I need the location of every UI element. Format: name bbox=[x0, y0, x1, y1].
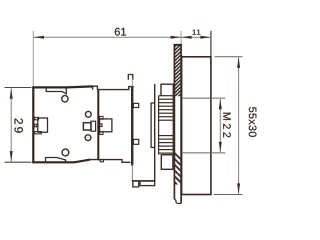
55x30 arrow up bbox=[237, 57, 240, 68]
bottom screw circle bbox=[62, 149, 69, 156]
left terminal box bbox=[38, 118, 48, 132]
neck bottom notch bbox=[100, 160, 103, 162]
dimension 29 extension top bbox=[5, 87, 32, 89]
contact block bottom edge bbox=[32, 160, 90, 163]
M22 arrow up bbox=[219, 99, 222, 110]
top key bump bbox=[93, 86, 98, 89]
bottom mounting tab bbox=[46, 158, 66, 163]
panel hatch lower section bbox=[174, 152, 183, 196]
plunger tab bbox=[128, 75, 133, 80]
flange lower tab bbox=[133, 139, 138, 144]
inner wall bbox=[97, 89, 99, 160]
panel left edge bbox=[173, 44, 175, 199]
bottom small square tab bbox=[133, 181, 139, 187]
55x30 arrow down bbox=[237, 183, 240, 194]
bushing top cap bbox=[161, 84, 173, 96]
contact carrier small rect bbox=[91, 121, 96, 131]
M22 extension bottom bbox=[182, 152, 226, 154]
label 61 bbox=[115, 28, 126, 36]
arrowhead 11 right bbox=[200, 36, 211, 39]
M22 arrow down bbox=[219, 142, 222, 153]
thread body left edge bbox=[158, 96, 160, 155]
dimension line 29 bbox=[10, 88, 12, 161]
plunger tab stem (light) bbox=[131, 80, 133, 87]
shared extension line at panel front bbox=[180, 31, 182, 44]
label 55x30 (rotated) bbox=[249, 107, 257, 137]
bushing bottom cap bbox=[161, 155, 173, 170]
panel bottom break bbox=[174, 199, 181, 203]
contact carrier square bbox=[83, 123, 91, 130]
panel top edge bbox=[174, 44, 182, 46]
left terminal nub bbox=[35, 124, 37, 127]
top screw circle bbox=[62, 96, 68, 102]
right terminal nub bbox=[100, 124, 102, 127]
55x30 dimension line bbox=[238, 58, 240, 194]
arrowhead 11 left bbox=[181, 36, 192, 39]
bottom wide tab bbox=[140, 181, 155, 186]
M22 extension top bbox=[182, 97, 226, 99]
label M22 (rotated) bbox=[223, 113, 231, 138]
contact block left edge bbox=[32, 86, 34, 163]
right terminal bottom tab bbox=[100, 132, 103, 135]
dimension 61 extension line left bbox=[32, 31, 34, 87]
arrowhead 61 left bbox=[34, 36, 45, 39]
flange plate bbox=[131, 87, 133, 166]
neck top edge bbox=[97, 87, 133, 90]
lower bracket bottom bbox=[132, 180, 156, 182]
collar right edge bbox=[154, 84, 156, 181]
right terminal top tab bbox=[100, 116, 103, 119]
neck bottom edge bbox=[90, 160, 130, 163]
thread lines bbox=[159, 96, 174, 153]
lower bracket left (light) bbox=[131, 165, 133, 181]
left terminal top tab bbox=[35, 117, 39, 119]
bezel head rectangle bbox=[182, 57, 211, 195]
flange upper tab bbox=[133, 103, 138, 107]
55x30 extension bottom bbox=[214, 194, 243, 196]
top mounting tab bbox=[46, 88, 66, 94]
thread body right edge bbox=[172, 96, 174, 155]
collar top and left edge bbox=[151, 103, 155, 147]
55x30 extension top bbox=[215, 56, 243, 58]
arrowhead 29 up bbox=[10, 88, 13, 99]
left terminal bottom tab bbox=[35, 132, 42, 134]
arrowhead 61 right bbox=[171, 36, 182, 39]
dimension 11 extension line right (above bezel) bbox=[210, 31, 212, 57]
contact carrier lower circle bbox=[85, 135, 91, 141]
contact block top edge bbox=[32, 86, 92, 87]
panel right edge bbox=[180, 44, 182, 204]
label 11 bbox=[193, 30, 201, 35]
right terminal box bbox=[100, 119, 112, 132]
M22 dimension line bbox=[219, 99, 221, 152]
dimension line 61 and 11 bbox=[33, 36, 211, 38]
contact carrier upper circle bbox=[85, 111, 91, 117]
panel hatch upper section bbox=[174, 39, 183, 101]
label 29 (rotated) bbox=[14, 119, 23, 133]
dimension 29 extension bottom bbox=[5, 161, 32, 163]
arrowhead 29 down bbox=[10, 151, 13, 162]
